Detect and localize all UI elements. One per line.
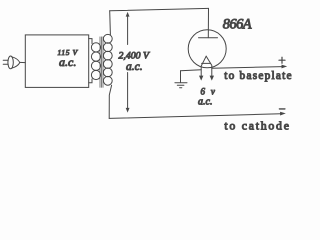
ground [175, 71, 187, 88]
wire to ground [181, 70, 202, 71]
voltage arrow 2400 V down segment [126, 73, 130, 113]
svg-text:to baseplate: to baseplate [224, 70, 293, 82]
wire to baseplate with arrow [212, 65, 287, 69]
svg-text:a.c.: a.c. [126, 61, 143, 73]
tube V1 plate [199, 37, 218, 39]
transformer T1 core [100, 37, 103, 88]
svg-text:a.c.: a.c. [59, 55, 76, 69]
filament lead right arrowhead [210, 76, 214, 81]
svg-text:866A: 866A [223, 17, 252, 33]
label minus [279, 108, 285, 110]
transformer T1 secondary winding [103, 34, 112, 85]
AC plug P1 [3, 56, 20, 69]
svg-text:6 v: 6 v [201, 87, 217, 97]
wire bottom to cathode with arrow [109, 112, 286, 119]
wire plug to box [20, 61, 26, 63]
wire secondary top lead [109, 11, 112, 35]
filament lead left arrowhead [199, 76, 203, 81]
svg-text:a.c.: a.c. [198, 97, 212, 108]
wire box to primary top [89, 39, 92, 44]
wire top HV [110, 8, 209, 10]
tube V1 filament [201, 56, 212, 76]
wire box to primary bottom [89, 79, 92, 83]
115 V a.c. source box [25, 35, 88, 88]
svg-text:to cathode: to cathode [224, 118, 290, 132]
voltage arrow 2400 V up segment [126, 12, 130, 45]
wire anode drop [207, 8, 209, 37]
transformer T1 primary winding [91, 43, 100, 80]
label plus [279, 57, 285, 63]
wire secondary bottom lead [109, 85, 111, 118]
tube V1 866A envelope [188, 30, 226, 68]
